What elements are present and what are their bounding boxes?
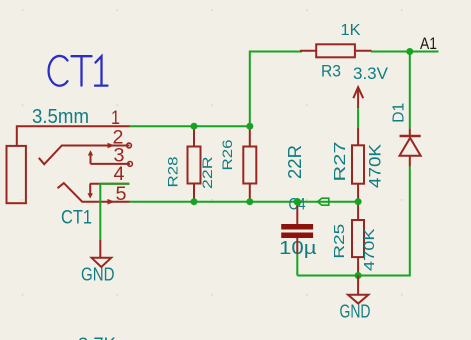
svg-text:5: 5 xyxy=(116,184,127,205)
wire D1 bottom down and left along bottom xyxy=(297,166,410,275)
svg-text:R27: R27 xyxy=(332,141,349,181)
pin 2 open end circle xyxy=(127,143,132,148)
svg-text:22R: 22R xyxy=(285,145,305,179)
wire pin4 to gnd xyxy=(100,184,129,240)
wire 3.3V to R27 xyxy=(357,108,359,128)
svg-text:R28: R28 xyxy=(165,156,181,187)
svg-text:3.7K: 3.7K xyxy=(78,335,116,340)
svg-text:R25: R25 xyxy=(331,224,348,259)
junction mid/C4 xyxy=(294,198,301,205)
junction mid/R26 xyxy=(246,198,253,205)
grid dots xyxy=(22,9,403,295)
diode D1 xyxy=(391,103,421,167)
wire down to D1 xyxy=(409,52,411,129)
hierarchical label pennant xyxy=(318,198,329,205)
svg-text:3.5mm: 3.5mm xyxy=(32,106,89,128)
capacitor C4 xyxy=(279,195,317,258)
svg-text:3.3V: 3.3V xyxy=(353,64,389,83)
pin 1 (tip) line xyxy=(17,126,130,146)
wire vertical up to R3 row xyxy=(250,52,302,127)
junction mid/R28 xyxy=(191,198,198,205)
svg-text:470K: 470K xyxy=(361,229,378,272)
connector CT1 jack body xyxy=(7,146,26,203)
resistor R3 xyxy=(300,22,372,81)
text note CT1 (large blue, stroke-font style) xyxy=(49,56,108,86)
wire mid horizontal rail xyxy=(130,201,359,203)
ground GND right xyxy=(340,276,371,322)
pin 2 line with switch arm xyxy=(39,146,130,165)
wire R3 right to A1 xyxy=(371,51,439,53)
pin 3 line with up arrow xyxy=(91,163,131,165)
junction pin1/R28 xyxy=(191,123,198,130)
resistor R28 xyxy=(165,126,216,202)
resistor R27 xyxy=(332,128,385,202)
svg-text:R26: R26 xyxy=(219,139,235,170)
svg-text:A1: A1 xyxy=(420,34,437,53)
svg-text:GND: GND xyxy=(81,265,115,285)
svg-text:470K: 470K xyxy=(366,143,385,188)
svg-text:1: 1 xyxy=(111,108,120,129)
svg-text:D1: D1 xyxy=(391,103,408,123)
svg-text:22R: 22R xyxy=(199,157,215,190)
resistor R25 xyxy=(331,202,378,276)
wire pin1 net horizontal xyxy=(130,125,250,127)
pin 5 line with switch arm xyxy=(58,183,130,202)
pin 4 line with down arrow xyxy=(90,183,130,185)
svg-text:4: 4 xyxy=(114,164,125,185)
power 3.3V xyxy=(353,64,389,108)
junction bottom/GND xyxy=(355,272,362,279)
pin 2 arrow xyxy=(108,143,115,149)
junction A1 node xyxy=(406,48,413,55)
wire C4 bottom to bottom rail xyxy=(296,254,298,276)
ground GND left xyxy=(81,240,115,285)
svg-text:GND: GND xyxy=(340,302,371,322)
junction mid/R27/R25 xyxy=(355,198,362,205)
svg-text:1K: 1K xyxy=(341,22,361,39)
svg-text:CT1: CT1 xyxy=(61,208,92,229)
junction pin1/R26 corner xyxy=(246,123,253,130)
pin 3 open end circle xyxy=(128,162,133,167)
resistor R26 xyxy=(219,126,305,202)
svg-text:R3: R3 xyxy=(321,62,341,81)
pin 5 arrow xyxy=(108,199,115,205)
